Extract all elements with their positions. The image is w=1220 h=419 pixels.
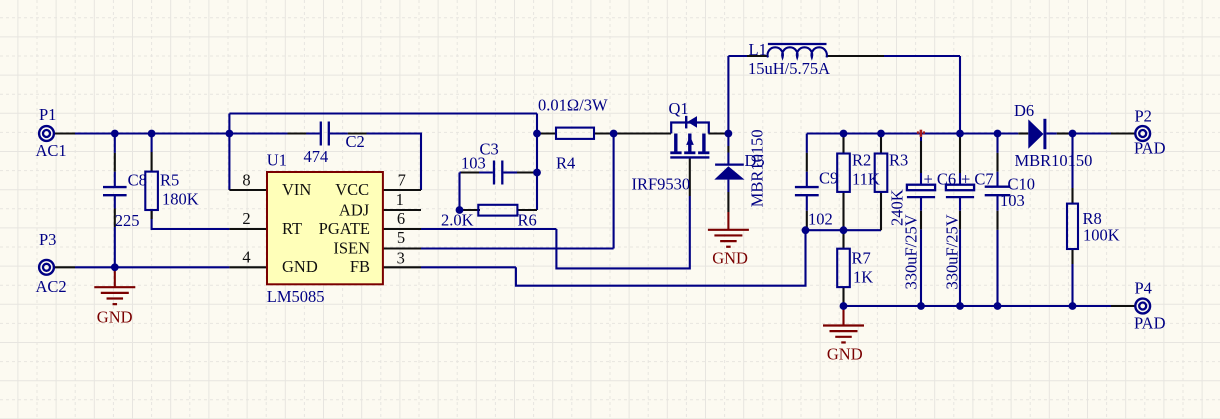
svg-text:225: 225 [115,211,140,230]
svg-text:ADJ: ADJ [339,200,370,219]
svg-text:R3: R3 [889,151,908,170]
svg-text:6: 6 [397,209,405,228]
svg-text:103: 103 [461,154,486,173]
svg-text:C8: C8 [128,170,147,189]
svg-text:GND: GND [282,257,318,276]
svg-text:102: 102 [808,210,833,229]
svg-text:+ C6: + C6 [924,170,957,189]
svg-text:C2: C2 [346,132,365,151]
svg-text:VCC: VCC [335,180,369,199]
svg-text:L1: L1 [749,40,767,59]
svg-text:R2: R2 [852,151,871,170]
svg-text:474: 474 [304,147,329,166]
svg-text:R5: R5 [160,170,179,189]
svg-text:P4: P4 [1135,279,1152,298]
svg-text:R4: R4 [556,153,575,172]
svg-text:GND: GND [827,345,863,364]
svg-text:2.0K: 2.0K [441,211,474,230]
svg-text:100K: 100K [1083,226,1120,245]
svg-text:4: 4 [242,248,250,267]
svg-text:330uF/25V: 330uF/25V [902,214,921,289]
svg-text:VIN: VIN [282,180,311,199]
svg-text:R6: R6 [518,211,537,230]
svg-text:P1: P1 [39,105,56,124]
svg-text:8: 8 [242,171,250,190]
svg-text:ISEN: ISEN [333,238,370,257]
svg-text:MBR10150: MBR10150 [1015,151,1093,170]
svg-text:11K: 11K [852,170,880,189]
svg-text:Q1: Q1 [669,99,689,118]
svg-text:IRF9530: IRF9530 [632,175,691,194]
svg-text:180K: 180K [162,190,199,209]
svg-text:7: 7 [398,171,406,190]
svg-text:103: 103 [1000,191,1025,210]
svg-text:PAD: PAD [1134,139,1166,158]
svg-text:R7: R7 [852,249,871,268]
svg-text:C9: C9 [819,168,838,187]
svg-text:LM5085: LM5085 [267,287,325,306]
svg-text:GND: GND [712,248,748,267]
svg-text:FB: FB [350,257,370,276]
svg-text:1: 1 [396,190,404,209]
svg-text:P2: P2 [1135,107,1152,126]
svg-text:U1: U1 [267,151,287,170]
svg-text:P3: P3 [39,230,56,249]
svg-text:+ C7: + C7 [961,170,994,189]
svg-text:330uF/25V: 330uF/25V [943,214,962,289]
svg-text:PAD: PAD [1134,314,1166,333]
svg-text:2: 2 [242,209,250,228]
svg-text:MBR10150: MBR10150 [748,129,767,207]
svg-text:3: 3 [397,249,405,268]
svg-text:GND: GND [97,307,133,326]
svg-text:5: 5 [397,228,405,247]
svg-text:D6: D6 [1014,101,1034,120]
svg-text:RT: RT [282,219,302,238]
svg-text:0.01Ω/3W: 0.01Ω/3W [538,95,608,114]
svg-text:AC1: AC1 [36,141,67,160]
svg-text:1K: 1K [853,268,873,287]
svg-text:AC2: AC2 [36,277,67,296]
svg-text:PGATE: PGATE [319,219,370,238]
svg-text:15uH/5.75A: 15uH/5.75A [748,59,830,78]
